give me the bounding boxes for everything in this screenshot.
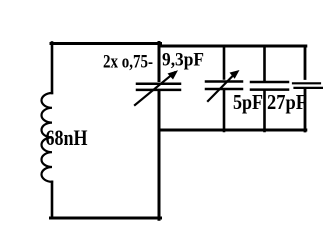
- svg-text:5pF: 5pF: [233, 90, 263, 114]
- svg-text:68nH: 68nH: [46, 125, 88, 150]
- svg-text:27pF: 27pF: [267, 90, 307, 114]
- svg-text:2x o,75-: 2x o,75-: [103, 52, 153, 72]
- svg-text:9,3pF: 9,3pF: [162, 51, 204, 71]
